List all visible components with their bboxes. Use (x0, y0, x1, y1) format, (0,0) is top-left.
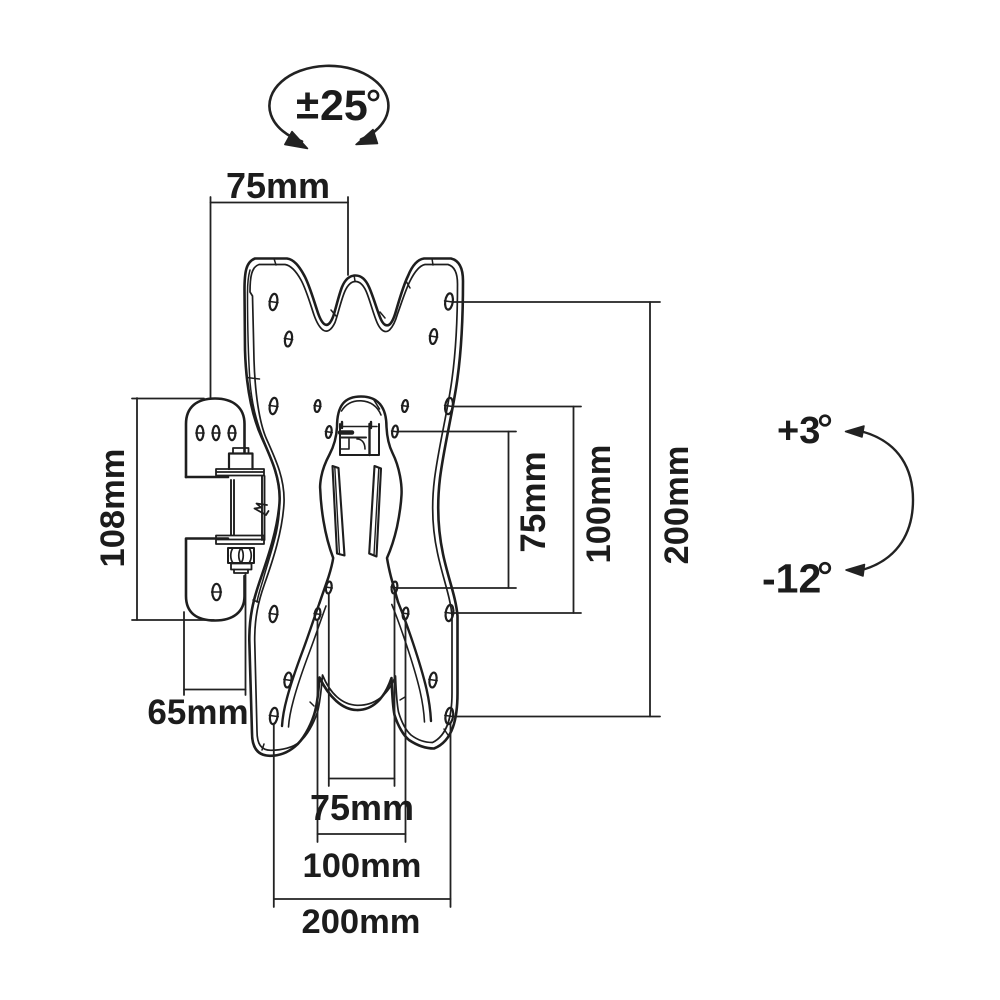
hole lower-left outer (269, 605, 279, 622)
svg-text:25: 25 (320, 82, 368, 130)
svg-text:100mm: 100mm (303, 847, 422, 885)
svg-text:-12: -12 (762, 556, 821, 602)
edge band tick marks (247, 259, 448, 751)
dimension 108mm (132, 398, 214, 620)
hole lower-75 right (391, 581, 398, 594)
hole mid-left outer (269, 397, 279, 414)
tilt arrowhead top (846, 426, 865, 437)
hinge top block (229, 454, 253, 470)
tongue slot right (369, 466, 381, 557)
hole upper-75 left (325, 426, 332, 439)
tongue dome inner band (342, 401, 382, 415)
svg-text:200mm: 200mm (658, 446, 696, 565)
hole bottom-left inner (283, 672, 292, 688)
tilt arc (862, 432, 913, 571)
hole top-right outer (444, 293, 454, 310)
hole mid-right outer (444, 397, 454, 414)
svg-text:108mm: 108mm (94, 449, 132, 568)
hole top-left outer (269, 293, 279, 310)
hole mid-left 100 (314, 400, 321, 413)
hole bottom-right inner (428, 672, 437, 688)
tongue left leg band (282, 603, 320, 726)
hole upper-75 right (391, 425, 398, 438)
dimension 75mm top line (211, 197, 349, 398)
wall bracket lobe hole 2 (213, 426, 220, 440)
svg-text:100mm: 100mm (580, 445, 618, 564)
wall bracket top lobe bottom edge (186, 476, 228, 479)
svg-text:75mm: 75mm (310, 787, 414, 828)
tongue clip detail (340, 422, 379, 455)
right dimension extension leaders (399, 302, 661, 717)
svg-text:200mm: 200mm (302, 903, 421, 941)
wall bracket bottom lobe hole (212, 584, 220, 600)
wall bracket top lobe (186, 399, 245, 478)
hinge bottom plate (216, 536, 264, 545)
main plate outline (245, 259, 464, 756)
hinge clip arrow (255, 504, 269, 516)
tongue right leg band (398, 602, 431, 721)
svg-text:65mm: 65mm (147, 693, 248, 732)
hole lower-left 100 (314, 608, 321, 621)
svg-text:+3: +3 (777, 410, 820, 452)
hole bottom-left outer (269, 707, 279, 724)
bottom dimension extensions (274, 594, 451, 907)
plate left edge thickness line (248, 270, 280, 602)
tilt arrowhead bottom (846, 565, 865, 577)
hole bottom-right outer (444, 707, 454, 724)
rotation arrowhead left (285, 132, 308, 149)
wall bracket lobe hole 1 (197, 426, 204, 440)
hole mid-right 100 (401, 400, 408, 413)
wall bracket bottom lobe (186, 539, 245, 621)
tongue slot left (333, 466, 345, 556)
dimension 65mm (184, 573, 246, 695)
hinge top plate (216, 469, 264, 476)
hole top-right inner (429, 329, 438, 345)
hole top-left inner (284, 331, 293, 347)
svg-text:75mm: 75mm (514, 451, 553, 552)
rotation arrowhead right (356, 130, 378, 145)
hinge nut (228, 548, 254, 563)
rotation indicator ellipse ±25° (269, 66, 388, 142)
hinge washer and bolt (231, 564, 252, 570)
wall bracket lobe hole 3 (229, 426, 236, 440)
hole lower-75 left (325, 581, 332, 594)
svg-text:±: ± (296, 81, 319, 128)
hinge mid box (231, 476, 265, 540)
hole lower-right outer (445, 604, 455, 621)
tongue outline (320, 397, 402, 604)
svg-text:75mm: 75mm (226, 165, 330, 206)
hole lower-right 100 (402, 607, 409, 620)
plate inner contour line (250, 265, 458, 751)
